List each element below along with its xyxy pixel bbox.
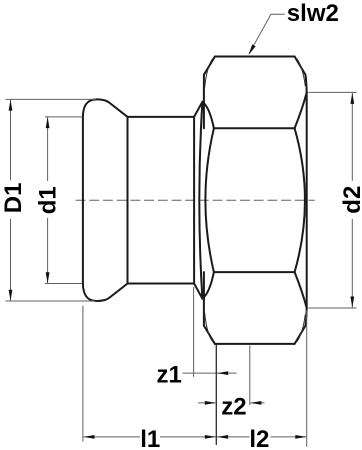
d2 extension line top [308,91,356,93]
nut chamfer arc lower-left [202,272,214,299]
d2 arrow down [350,297,354,308]
l1 extension line left [82,306,84,442]
nut top-left chamfer [204,57,215,75]
centerline [76,199,315,201]
nut lower division line [214,271,295,273]
nut front face arc left [205,128,214,272]
corner sliver bottom-right [297,314,306,342]
corner sliver top-left [205,58,214,89]
svg-text:l1: l1 [140,426,160,450]
nut left end face upper [203,75,205,129]
l1/l2 boundary extension line [215,345,217,445]
l1 dimension line [83,436,216,438]
z1 extension line [193,287,195,377]
z2 left arrow line [198,402,216,404]
d1 arrow up [46,117,50,128]
bead top profile [83,99,128,282]
D1 extension line bottom [6,300,96,302]
svg-text:d2: d2 [339,186,362,214]
nut top edge [215,56,295,58]
l2 extension line right [306,310,308,446]
d1 extension line top [45,116,82,118]
svg-text:l2: l2 [249,426,269,450]
l2 arrow left [217,435,228,439]
nut right end face [306,92,308,308]
d2 extension line bottom [308,307,356,309]
nut chamfer arc lower-right [295,272,307,308]
svg-text:d1: d1 [34,186,61,214]
d1 arrow down [46,272,50,283]
d2 dimension line [351,93,353,308]
nut chamfer arc upper-left [202,102,214,129]
nut bottom-right chamfer [295,308,307,344]
nut top-right chamfer [295,57,307,93]
l1 arrow left [84,435,95,439]
svg-text:slw2: slw2 [287,0,339,27]
slw2 leader arrow [249,44,256,55]
svg-text:D1: D1 [0,183,27,214]
z1 arrow [217,371,228,375]
nut left end face lower [203,272,205,326]
nut bottom edge [215,343,295,345]
nut chamfer arc upper-right [295,92,307,128]
svg-text:z2: z2 [221,394,246,421]
cylinder top line [128,116,195,118]
z1 dimension line [183,372,237,374]
nut front face arc right [295,128,305,272]
corner sliver bottom-left [205,311,214,342]
slw2 leader line [249,14,285,54]
z2 right arrow line [250,402,264,404]
l1 arrow right [205,435,216,439]
svg-text:z1: z1 [157,361,182,388]
D1 arrow up [9,100,13,111]
d1 extension line bottom [45,283,82,285]
z2 right arrow [250,401,261,405]
d1 dimension line [47,117,49,283]
l2 arrow right [295,435,306,439]
bead bottom profile [83,283,128,301]
corner sliver top-right [297,58,306,86]
z2 left arrow [205,401,216,405]
l2 dimension line [217,436,306,438]
D1 dimension line [10,100,12,301]
cone bottom [194,284,202,299]
cone top [194,102,202,117]
D1 arrow down [9,290,13,301]
bead-cylinder edge [127,117,129,284]
nut upper division line [214,127,295,129]
washer face [193,117,195,284]
D1 extension line top [6,98,96,100]
nut washer boss silhouette [199,102,202,299]
nut bottom-left chamfer [204,326,215,344]
z2 extension line [249,345,251,405]
d2 arrow up [350,93,354,104]
cylinder bottom line [128,283,195,285]
